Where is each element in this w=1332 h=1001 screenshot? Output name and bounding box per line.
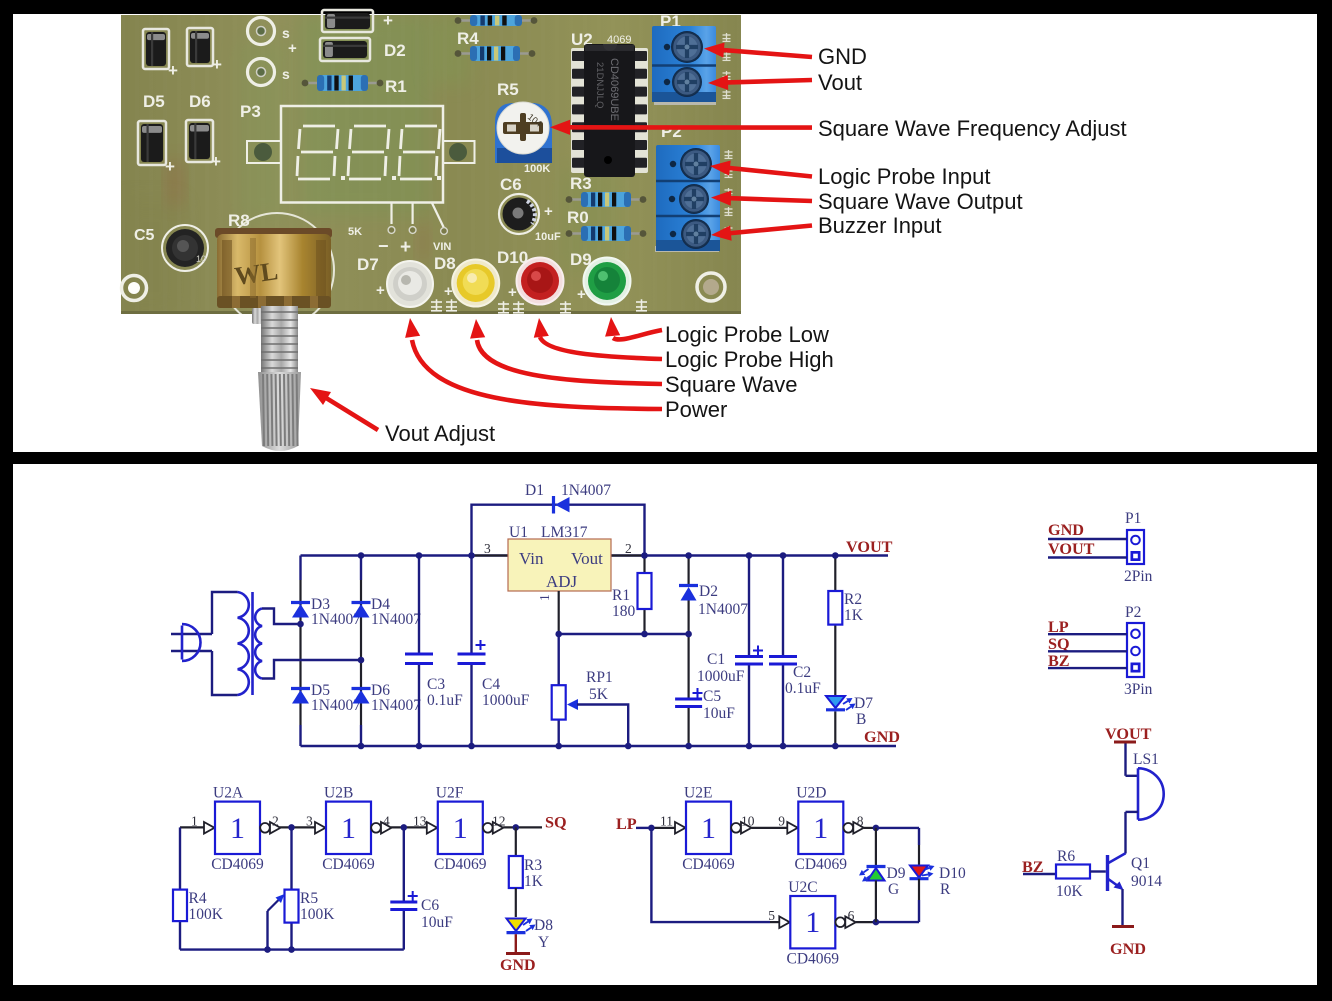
wire left feedback column R4	[179, 827, 181, 889]
svg-text:6: 6	[848, 908, 855, 923]
svg-text:U2C: U2C	[788, 879, 817, 896]
svg-text:R2: R2	[844, 591, 862, 608]
resistor R6	[1056, 865, 1090, 879]
LED D8	[515, 888, 517, 917]
regulator U1 LM317	[508, 539, 611, 591]
svg-text:3: 3	[306, 814, 313, 829]
svg-text:VOUT: VOUT	[1105, 725, 1152, 743]
wire U2E out to U2D in	[752, 827, 788, 829]
resistor R1 (photo)	[307, 82, 378, 85]
resistor R1	[643, 556, 645, 574]
wire pin3 pin2 stubs	[473, 554, 508, 556]
svg-text:1: 1	[191, 814, 198, 829]
capacitor C5	[687, 634, 689, 698]
transformer core	[251, 592, 254, 695]
wire buzzer to collector	[1126, 811, 1139, 813]
svg-text:CD4069: CD4069	[682, 856, 735, 873]
silkscreen chinese column P1	[723, 33, 731, 41]
AC plug	[171, 633, 212, 635]
svg-text:GND: GND	[864, 728, 900, 746]
LED D9	[875, 828, 877, 867]
svg-text:100K: 100K	[189, 906, 224, 923]
svg-text:+: +	[508, 284, 517, 301]
annotation Logic Probe High	[540, 337, 662, 359]
wire U2A input	[180, 826, 204, 828]
svg-text:10: 10	[196, 254, 206, 264]
potentiometer RP1	[558, 634, 560, 685]
svg-text:CD4069: CD4069	[795, 856, 848, 873]
wire U2F out / SQ	[503, 826, 542, 828]
svg-text:CD4069: CD4069	[211, 856, 264, 873]
top white panel	[13, 14, 1317, 452]
annotation Square Wave Output	[727, 198, 812, 201]
svg-text:2: 2	[272, 814, 279, 829]
svg-text:10uF: 10uF	[703, 705, 735, 722]
wire VOUT rail	[301, 554, 889, 556]
mounting hole bottom-left	[122, 276, 147, 301]
transistor Q1	[1106, 855, 1109, 891]
svg-text:D5: D5	[143, 92, 165, 111]
svg-text:Square Wave: Square Wave	[665, 372, 797, 397]
svg-text:1N4007: 1N4007	[698, 601, 748, 618]
svg-text:+: +	[544, 203, 553, 220]
svg-text:+: +	[376, 282, 385, 299]
svg-text:Logic Probe High: Logic Probe High	[665, 347, 834, 372]
wire bottom feedback	[180, 948, 404, 950]
wire RP1 wiper	[577, 705, 628, 747]
svg-text:Q1: Q1	[1131, 855, 1150, 872]
svg-text:R1: R1	[385, 77, 407, 96]
svg-text:LM317: LM317	[541, 524, 588, 541]
svg-text:100K: 100K	[300, 906, 335, 923]
svg-text:U2B: U2B	[324, 785, 353, 802]
svg-text:Square Wave Frequency Adjust: Square Wave Frequency Adjust	[818, 116, 1127, 141]
wire VOUT to P1	[1048, 556, 1127, 558]
standoff holes	[248, 18, 275, 45]
transformer T1	[212, 592, 238, 634]
inverter U2C	[779, 916, 790, 928]
svg-text:VIN: VIN	[433, 241, 451, 253]
bottom white panel	[13, 464, 1317, 985]
resistor R4	[173, 890, 187, 922]
mounting hole bottom-right	[697, 273, 725, 301]
wire LP input	[636, 827, 651, 829]
annotation Logic Probe Input	[726, 168, 812, 177]
svg-text:P2: P2	[1125, 604, 1141, 621]
wire secondary bottom to bridge	[262, 660, 361, 679]
annotation Buzzer Input	[727, 226, 812, 234]
svg-text:1K: 1K	[524, 873, 544, 890]
svg-text:U2F: U2F	[436, 785, 464, 802]
svg-text:3: 3	[484, 541, 491, 556]
inverter U2A	[204, 822, 215, 834]
ground symbol (buzzer)	[1112, 925, 1134, 928]
svg-text:−: −	[378, 236, 389, 256]
svg-text:U2E: U2E	[684, 785, 712, 802]
wire D8 to GND	[515, 934, 517, 953]
svg-text:C4: C4	[482, 676, 500, 693]
wire LP to P2	[1048, 633, 1127, 635]
svg-text:0.1uF: 0.1uF	[427, 692, 463, 709]
svg-text:11: 11	[660, 814, 673, 829]
svg-text:1: 1	[341, 812, 356, 845]
wire U2A out to U2B in	[280, 826, 315, 828]
svg-text:2: 2	[625, 541, 632, 556]
svg-text:R3: R3	[524, 857, 542, 874]
svg-text:1N4007: 1N4007	[371, 611, 421, 628]
svg-text:+: +	[383, 11, 393, 30]
svg-text:+: +	[577, 286, 586, 303]
LED D7	[826, 696, 845, 708]
display pins	[390, 203, 392, 224]
svg-text:SQ: SQ	[545, 814, 567, 832]
svg-text:D2: D2	[699, 583, 718, 600]
svg-text:Logic Probe Low: Logic Probe Low	[665, 322, 829, 347]
svg-text:1N4007: 1N4007	[561, 482, 611, 499]
resistor R4 (photo)	[460, 52, 530, 55]
svg-text:s: s	[282, 25, 290, 41]
diode D1 with bypass wire	[472, 505, 645, 556]
svg-text:U1: U1	[509, 524, 528, 541]
svg-text:1: 1	[453, 812, 468, 845]
svg-text:VOUT: VOUT	[846, 538, 893, 556]
svg-text:D9: D9	[887, 865, 906, 882]
svg-text:+: +	[165, 157, 175, 176]
wire ADJ node line	[559, 633, 689, 635]
svg-text:+: +	[211, 152, 221, 171]
annotation Vout	[724, 80, 812, 83]
svg-text:5K: 5K	[348, 226, 362, 238]
svg-text:D7: D7	[854, 695, 873, 712]
svg-text:CD4069UBE: CD4069UBE	[608, 58, 620, 121]
wire secondary top to bridge	[262, 609, 301, 625]
wire emitter down	[1121, 889, 1123, 926]
svg-text:U2A: U2A	[213, 785, 244, 802]
svg-text:1000uF: 1000uF	[482, 692, 530, 709]
wire ADJ pin	[558, 591, 560, 634]
svg-text:1: 1	[537, 594, 552, 601]
svg-text:D8: D8	[534, 917, 553, 934]
capacitor C4	[470, 556, 472, 653]
annotation Square Wave Frequency Adjust	[566, 125, 812, 130]
svg-text:GND: GND	[1048, 521, 1084, 539]
svg-text:Y: Y	[538, 934, 549, 951]
svg-text:Square Wave Output: Square Wave Output	[818, 189, 1023, 214]
annotation Logic Probe Low	[613, 330, 662, 339]
svg-text:+: +	[212, 55, 222, 74]
svg-text:9014: 9014	[1131, 873, 1162, 890]
LED D10	[918, 828, 920, 845]
svg-text:R4: R4	[189, 890, 207, 907]
svg-text:+: +	[288, 40, 297, 57]
svg-text:10uF: 10uF	[535, 231, 561, 243]
svg-text:Logic Probe Input: Logic Probe Input	[818, 164, 990, 189]
svg-text:10: 10	[741, 814, 755, 829]
svg-text:1: 1	[813, 812, 828, 845]
wire VOUT to buzzer	[1124, 744, 1126, 776]
wire SQ to P2	[1048, 650, 1127, 652]
svg-text:9: 9	[778, 814, 785, 829]
node secondary top	[297, 621, 304, 628]
inverter U2E	[675, 822, 686, 834]
svg-text:s: s	[282, 66, 290, 82]
node secondary bottom	[358, 657, 365, 664]
pot shaft	[252, 308, 262, 324]
svg-text:U2D: U2D	[796, 785, 826, 802]
svg-text:ADJ: ADJ	[546, 572, 578, 591]
diode D4	[352, 601, 371, 604]
svg-text:1N4007: 1N4007	[371, 697, 421, 714]
svg-text:D7: D7	[357, 255, 379, 274]
svg-text:+: +	[444, 283, 453, 300]
resistor top edge (photo)	[460, 19, 532, 22]
svg-text:13: 13	[413, 814, 427, 829]
svg-text:R1: R1	[612, 587, 630, 604]
svg-text:5: 5	[768, 908, 775, 923]
resistor R5 trimmer	[290, 827, 292, 889]
svg-text:1: 1	[805, 906, 820, 939]
svg-text:1000uF: 1000uF	[697, 668, 745, 685]
svg-text:Buzzer Input: Buzzer Input	[818, 213, 942, 238]
svg-text:B: B	[856, 711, 866, 728]
svg-text:100K: 100K	[524, 163, 550, 175]
svg-text:1K: 1K	[844, 607, 864, 624]
diode D5	[291, 687, 310, 690]
diode D6	[352, 687, 371, 690]
svg-text:C2: C2	[793, 664, 811, 681]
svg-text:C3: C3	[427, 676, 445, 693]
wire left bridge column	[299, 556, 301, 581]
diode D2	[687, 556, 689, 586]
svg-text:LP: LP	[616, 815, 637, 833]
resistor R3	[515, 827, 517, 856]
capacitor C3	[418, 556, 420, 653]
svg-text:1N4007: 1N4007	[311, 697, 361, 714]
svg-text:D10: D10	[939, 865, 966, 882]
wire LP to U2C	[651, 828, 770, 922]
svg-text:+: +	[168, 61, 178, 80]
svg-text:GND: GND	[1110, 940, 1146, 958]
svg-text:8: 8	[857, 814, 864, 829]
svg-text:P1: P1	[1125, 510, 1141, 527]
svg-text:D1: D1	[525, 482, 544, 499]
inverter U2F	[427, 822, 438, 834]
svg-text:C6: C6	[421, 897, 439, 914]
ground symbol (oscillator)	[506, 952, 530, 955]
wire U2D out node	[864, 827, 876, 829]
capacitor C1	[748, 556, 750, 656]
annotation GND	[720, 50, 812, 57]
diode pair top-left (photo)	[143, 29, 169, 69]
annotation Power	[412, 340, 662, 409]
svg-text:Vin: Vin	[519, 549, 544, 568]
svg-text:C5: C5	[703, 688, 721, 705]
wire R6 to base	[1090, 870, 1106, 872]
svg-text:CD4069: CD4069	[434, 856, 487, 873]
svg-text:D2: D2	[384, 41, 406, 60]
svg-text:D6: D6	[189, 92, 211, 111]
svg-text:3Pin: 3Pin	[1124, 681, 1153, 698]
svg-text:2Pin: 2Pin	[1124, 568, 1153, 585]
wire second bridge column	[360, 580, 362, 725]
svg-text:1N4007: 1N4007	[311, 611, 361, 628]
diode D2 (photo)	[320, 38, 370, 61]
svg-text:1: 1	[701, 812, 716, 845]
svg-text:R0: R0	[567, 208, 589, 227]
inverter U2B	[315, 822, 326, 834]
svg-text:P2: P2	[661, 122, 682, 141]
wire GND rail	[301, 745, 897, 747]
svg-text:WL: WL	[233, 256, 280, 291]
annotation Vout Adjust	[324, 396, 378, 430]
svg-text:G: G	[888, 881, 899, 898]
wire R5 wiper	[266, 911, 268, 950]
svg-text:GND: GND	[500, 957, 536, 974]
transformer secondary	[255, 609, 262, 679]
wire BZ to P2	[1048, 667, 1127, 669]
svg-text:Vout: Vout	[818, 70, 862, 95]
7-segment digits	[303, 125, 335, 128]
wire BZ to R6	[1023, 873, 1056, 875]
svg-text:P3: P3	[240, 102, 261, 121]
silkscreen chinese labels under LEDs	[431, 299, 442, 311]
svg-text:CD4069: CD4069	[322, 856, 375, 873]
wire U2B out to U2F in	[391, 826, 427, 828]
svg-text:R6: R6	[1057, 848, 1075, 865]
svg-text:10K: 10K	[1056, 883, 1084, 900]
annotation Square Wave	[477, 340, 662, 384]
svg-text:R: R	[940, 881, 951, 898]
svg-text:5K: 5K	[589, 686, 609, 703]
svg-text:+: +	[400, 237, 411, 258]
power bar VOUT	[1114, 741, 1136, 744]
svg-text:1: 1	[230, 812, 245, 845]
svg-text:0.1uF: 0.1uF	[785, 680, 821, 697]
diode D3	[291, 601, 310, 604]
svg-text:10uF: 10uF	[421, 914, 453, 931]
wire U2C out node	[856, 921, 876, 923]
inverter U2D	[787, 822, 798, 834]
svg-text:R5: R5	[497, 80, 519, 99]
svg-text:D8: D8	[434, 254, 456, 273]
capacitor C2	[782, 556, 784, 656]
svg-text:180: 180	[612, 603, 636, 620]
svg-text:Power: Power	[665, 397, 727, 422]
svg-text:Vout Adjust: Vout Adjust	[385, 421, 495, 446]
svg-text:VOUT: VOUT	[1048, 540, 1095, 558]
svg-text:21DNJJLQ: 21DNJJLQ	[594, 62, 605, 108]
wire GND to P1	[1048, 538, 1127, 540]
svg-text:4: 4	[383, 814, 390, 829]
capacitor C6	[403, 827, 405, 900]
svg-text:GND: GND	[818, 44, 867, 69]
diode D5 D6 bodies (photo)	[138, 121, 166, 165]
svg-text:C1: C1	[707, 651, 725, 668]
svg-text:C5: C5	[134, 227, 155, 244]
svg-text:R4: R4	[457, 29, 479, 48]
svg-text:RP1: RP1	[586, 669, 613, 686]
diode top (photo)	[322, 10, 373, 32]
svg-text:Vout: Vout	[571, 549, 603, 568]
svg-text:C6: C6	[500, 175, 522, 194]
svg-text:CD4069: CD4069	[787, 950, 840, 967]
rail junction dots	[358, 552, 365, 559]
resistor R2	[834, 556, 836, 592]
svg-text:12: 12	[492, 814, 506, 829]
svg-text:R5: R5	[300, 890, 318, 907]
silkscreen chinese column P2	[725, 150, 733, 158]
svg-text:LS1: LS1	[1133, 751, 1159, 768]
